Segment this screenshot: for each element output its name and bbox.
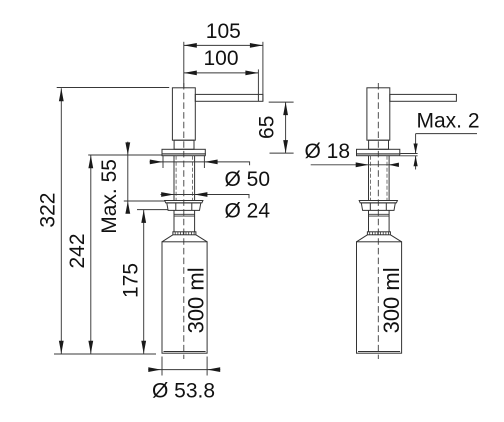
dim dia18 line <box>311 164 399 166</box>
hex nut right <box>361 203 395 211</box>
cap ring left <box>173 232 196 235</box>
hex nut left <box>167 203 201 211</box>
cap ring right <box>367 232 390 235</box>
arrow dia24 left points right <box>161 192 174 197</box>
dim 242 line <box>90 155 92 354</box>
arrow dia50 left points right <box>150 160 163 165</box>
arrow max55 bottom points up <box>125 201 130 214</box>
bottle bottom inner line right <box>358 351 400 353</box>
dim 105 ext left <box>183 42 185 88</box>
arrow dia24 right points left <box>194 192 207 197</box>
cap ring knurl left <box>175 232 194 235</box>
dim max2 vline and label underline <box>416 134 477 170</box>
dim dia50 line <box>150 162 250 165</box>
svg-text:Max. 55: Max. 55 <box>98 159 121 234</box>
flange plate left <box>162 154 205 156</box>
svg-text:300 ml: 300 ml <box>183 267 208 333</box>
arrow max2 bottom points up <box>414 156 418 167</box>
svg-text:65: 65 <box>256 116 279 139</box>
pump head right <box>367 88 390 140</box>
dim max2 stub bottom <box>400 155 417 157</box>
svg-text:Max. 2: Max. 2 <box>417 109 480 132</box>
washer right <box>359 201 397 203</box>
dim max2 stub top <box>400 153 417 155</box>
threaded shaft right <box>369 156 390 201</box>
arrow max55 top points down <box>125 142 130 155</box>
dim max55 ext bottom <box>124 200 165 202</box>
arrow 175 bottom <box>141 341 146 354</box>
spout seam left <box>257 94 259 101</box>
threaded shaft left <box>174 156 195 201</box>
svg-text:Ø 24: Ø 24 <box>225 199 271 222</box>
arrow 100 right <box>245 71 258 76</box>
spout left <box>195 94 263 101</box>
lower tube left <box>174 210 195 231</box>
dim dia24 line <box>161 195 250 199</box>
bottle right <box>357 242 402 353</box>
bottle bottom inner line left <box>164 351 206 353</box>
arrow dia18 left points right <box>356 162 369 167</box>
washer left <box>165 201 203 203</box>
dim dia53.8 ext left <box>161 357 163 376</box>
dim 322 ext top <box>57 87 170 89</box>
dim 100 ext right <box>257 69 259 94</box>
tube groove right <box>369 214 390 216</box>
arrow 65 bottom <box>283 140 288 153</box>
bottle shoulder right <box>357 235 402 242</box>
arrow dia53.8 right points left <box>207 367 220 372</box>
arrow 65 top <box>283 102 288 115</box>
dim 105 line <box>184 44 263 46</box>
arrow 100 left <box>184 71 197 76</box>
arrow dia18 right points left <box>389 163 399 167</box>
svg-text:322: 322 <box>37 193 60 228</box>
bottle shoulder left <box>162 235 207 242</box>
dim 175 line <box>143 210 145 354</box>
dim 105 ext right <box>262 42 264 102</box>
nut facets right <box>370 203 386 211</box>
spout right <box>390 94 457 101</box>
cap ring knurl right <box>370 232 389 235</box>
arrow 105 right <box>250 43 263 48</box>
dim 242 ext top <box>88 154 162 156</box>
centerline right <box>377 83 379 359</box>
flange plate right <box>357 154 400 156</box>
svg-text:100: 100 <box>203 47 238 70</box>
dim dia53.8 ext right <box>206 357 208 376</box>
centerline left <box>183 83 185 359</box>
flange right <box>357 149 400 154</box>
head stem right <box>369 140 389 149</box>
arrow 322 top <box>59 88 64 101</box>
dim 100 line <box>184 72 259 74</box>
dim 175 ext top <box>137 209 168 211</box>
dim 65 line <box>285 102 287 153</box>
arrow dia53.8 left points right <box>148 367 161 372</box>
tube groove left <box>174 214 195 216</box>
dim dia50 ext right <box>203 156 205 168</box>
nut facets left <box>176 203 192 211</box>
pump head left <box>172 88 195 140</box>
thread root dashes left <box>176 156 192 201</box>
arrow max2 top points down <box>414 144 418 154</box>
flange left <box>162 149 205 154</box>
dim 322 line <box>60 88 62 354</box>
dim 65 ext bottom <box>270 152 294 154</box>
arrow 322 bottom <box>59 341 64 354</box>
arrow 105 left <box>184 43 197 48</box>
svg-text:242: 242 <box>66 233 89 268</box>
svg-text:105: 105 <box>206 20 241 43</box>
baseline bottom <box>54 353 156 355</box>
svg-text:Ø 53.8: Ø 53.8 <box>152 380 215 403</box>
dim 65 ext top <box>269 101 294 103</box>
thread root dashes right <box>371 156 387 201</box>
dim max55 line <box>127 142 129 214</box>
arrow 175 top <box>141 210 146 223</box>
arrow 242 top <box>88 155 93 168</box>
dim dia50 ext left <box>162 156 164 168</box>
head stem left <box>174 140 194 149</box>
bottle left <box>162 242 207 353</box>
svg-text:Ø 50: Ø 50 <box>225 168 271 191</box>
lower tube right <box>369 210 390 231</box>
svg-text:300 ml: 300 ml <box>379 267 404 333</box>
svg-text:Ø 18: Ø 18 <box>305 140 351 163</box>
arrow 242 bottom <box>88 341 93 354</box>
arrow dia50 right points left <box>205 160 218 165</box>
dim dia53.8 line <box>148 369 220 371</box>
svg-text:175: 175 <box>120 263 143 298</box>
